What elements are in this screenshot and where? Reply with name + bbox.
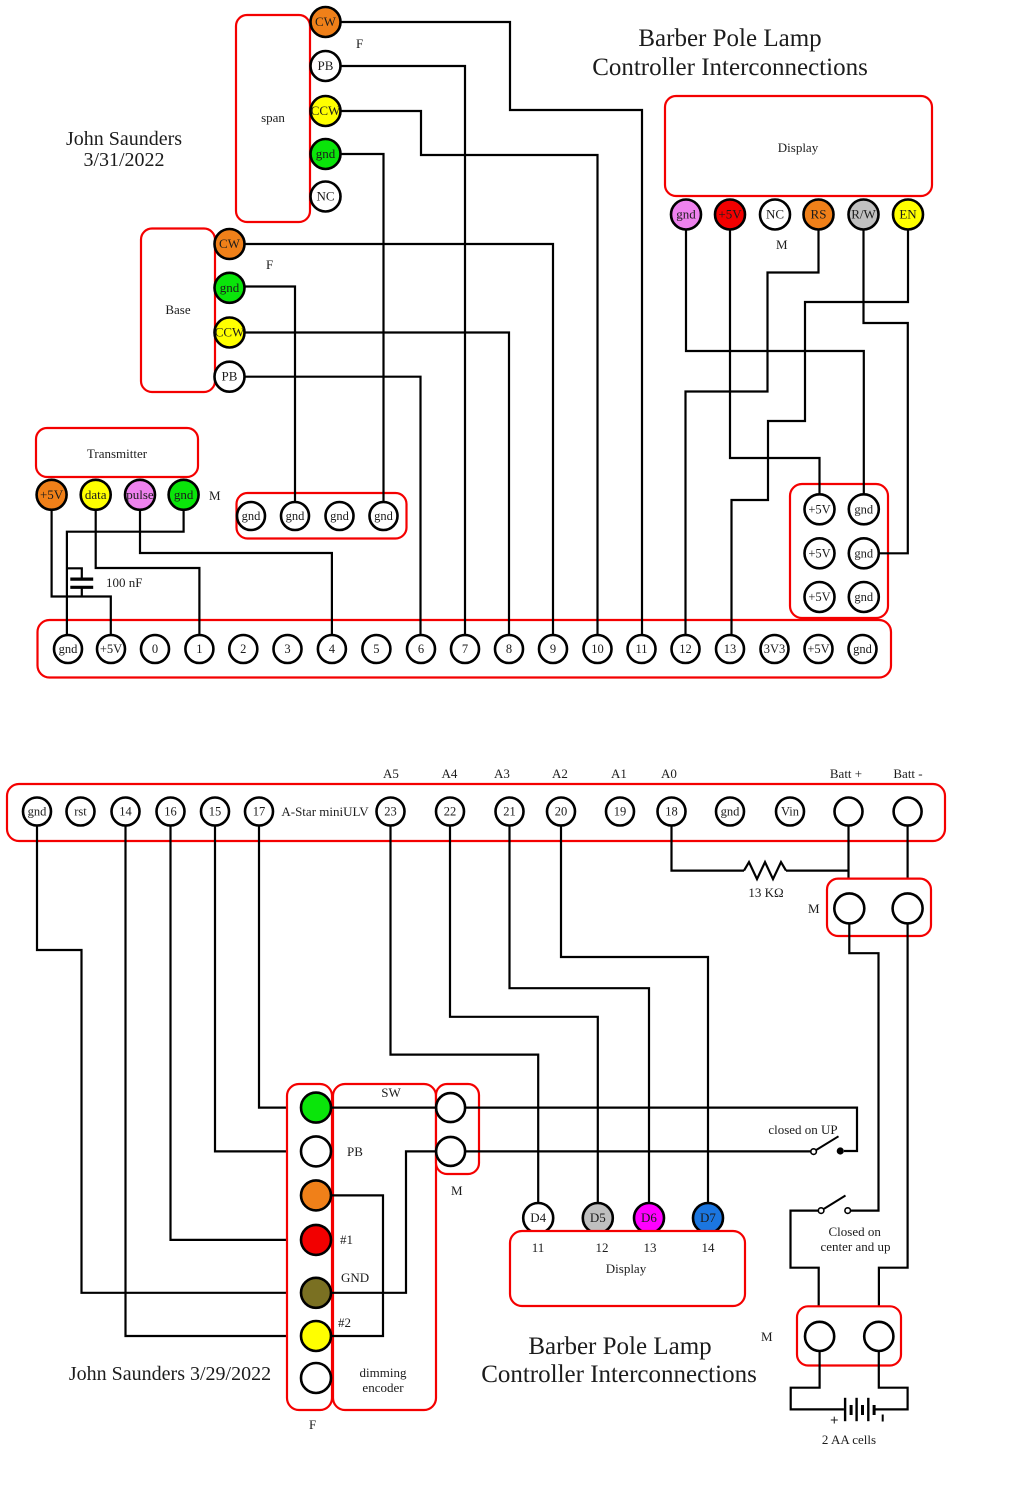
wire Base CW to bus pin 9 <box>245 244 554 635</box>
svg-text:15: 15 <box>209 805 222 819</box>
svg-text:closed on UP: closed on UP <box>768 1122 837 1137</box>
svg-text:EN: EN <box>899 207 917 222</box>
wire bus2 17 to encoder SW pin <box>259 827 301 1108</box>
encoder F strip box <box>287 1084 332 1410</box>
svg-text:1: 1 <box>196 642 202 656</box>
svg-text:3: 3 <box>284 642 290 656</box>
span pin gnd <box>311 139 341 169</box>
svg-text:Batt -: Batt - <box>893 766 922 781</box>
wire display RS to bus pin 12 <box>686 230 819 636</box>
svg-text:13 KΩ: 13 KΩ <box>748 885 783 900</box>
lower M pin left <box>805 1322 834 1351</box>
wire Batt+ pin to M connector <box>847 827 849 894</box>
wire M bottom pin to switch1 left contact <box>465 1150 811 1152</box>
svg-text:+5V: +5V <box>808 546 830 560</box>
svg-text:Display: Display <box>778 140 819 155</box>
pin D6 <box>634 1203 664 1233</box>
svg-text:2: 2 <box>240 642 246 656</box>
transmitter pin data <box>81 480 111 510</box>
svg-text:A3: A3 <box>494 766 510 781</box>
wire bus2 21 to D6 <box>510 827 650 1204</box>
svg-text:gnd: gnd <box>316 146 336 161</box>
span pin CCW <box>311 96 341 126</box>
wire transmitter data to bus pin 1 <box>96 510 200 635</box>
svg-text:#1: #1 <box>340 1232 353 1247</box>
svg-text:gnd: gnd <box>374 509 394 523</box>
switch1 closed on UP <box>811 1149 817 1155</box>
svg-text:R/W: R/W <box>851 207 876 222</box>
svg-text:dimming: dimming <box>360 1365 407 1380</box>
svg-text:gnd: gnd <box>854 590 874 604</box>
bus1 pin 9 at x 553 <box>539 635 567 663</box>
svg-text:gnd: gnd <box>854 546 874 560</box>
svg-text:CW: CW <box>219 236 241 251</box>
encoder pin white bottom <box>301 1363 331 1393</box>
wire M right down to lower M right <box>879 923 908 1321</box>
svg-text:3/31/2022: 3/31/2022 <box>83 149 164 171</box>
svg-text:F: F <box>266 257 273 272</box>
wire Base CCW to bus pin 8 <box>245 333 510 636</box>
display pin R/W <box>849 200 879 230</box>
bus2 pin rst at x 80.5 <box>67 798 95 826</box>
encoder pin #1 red <box>301 1225 331 1255</box>
wire resistor to Batt+ line <box>786 869 849 871</box>
group pin gnd row1 <box>849 494 879 524</box>
svg-text:9: 9 <box>550 642 556 656</box>
bus2 pin 15 at x 215 <box>201 798 229 826</box>
dimming encoder box <box>333 1084 436 1410</box>
svg-text:NC: NC <box>766 207 784 222</box>
connector span box <box>236 15 310 222</box>
svg-text:M: M <box>776 237 788 252</box>
wire bus2 14 to encoder #2 pin <box>126 827 302 1337</box>
wire bus2 15 to encoder PB pin <box>215 827 301 1152</box>
encoder pin GND olive <box>301 1278 331 1308</box>
battery B1 2 AA cells <box>844 1398 846 1421</box>
display pin NC <box>760 200 790 230</box>
gnd group pin 1 <box>237 502 265 530</box>
svg-text:span: span <box>261 110 285 125</box>
wire encoder orange pin to yellow pin <box>331 1195 383 1336</box>
encoder pin #2 yellow <box>301 1321 331 1351</box>
group pin +5V row3 <box>805 582 835 612</box>
Base pin CCW <box>215 318 245 348</box>
svg-text:D6: D6 <box>641 1210 657 1225</box>
svg-text:A2: A2 <box>552 766 568 781</box>
svg-text:John Saunders: John Saunders <box>66 128 182 150</box>
svg-text:23: 23 <box>384 805 397 819</box>
bus1 pin +5V at x 818.5 <box>805 635 833 663</box>
resistor R1 13 KOhm <box>744 862 786 879</box>
svg-text:gnd: gnd <box>721 805 741 819</box>
span pin NC <box>311 182 341 212</box>
group pin gnd row3 <box>849 582 879 612</box>
lower M pin right <box>864 1322 893 1351</box>
bus1 pin 5 at x 376.4 <box>362 635 390 663</box>
svg-text:PB: PB <box>347 1144 363 1159</box>
svg-text:A5: A5 <box>383 766 399 781</box>
switch2 closed on center and up <box>818 1208 824 1214</box>
bus2 pin 22 at x 450 <box>436 798 464 826</box>
svg-text:gnd: gnd <box>330 509 350 523</box>
bus1 pin 10 at x 597.5 <box>584 635 612 663</box>
svg-text:CW: CW <box>315 14 337 29</box>
svg-text:12: 12 <box>596 1240 609 1255</box>
bus1 pin +5V at x 111 <box>97 635 125 663</box>
wire bus2 16 to encoder #1 pin <box>171 827 302 1240</box>
svg-text:gnd: gnd <box>28 805 48 819</box>
svg-text:GND: GND <box>341 1270 369 1285</box>
svg-text:#2: #2 <box>338 1315 351 1330</box>
wire lower M right to battery <box>876 1351 908 1409</box>
wire M left to switch2 right contact <box>849 923 878 1210</box>
encoder pin SW green <box>301 1093 331 1123</box>
wire encoder GND pin to M bottom pin <box>331 1151 436 1292</box>
wire display gnd to group top gnd <box>686 230 864 495</box>
svg-text:12: 12 <box>679 642 692 656</box>
wire M top pin to switch1 <box>465 1108 857 1151</box>
svg-text:Display: Display <box>606 1261 647 1276</box>
bus2 pin 18 at x 671.5 <box>658 798 686 826</box>
svg-text:gnd: gnd <box>220 280 240 295</box>
battery M pin left <box>834 893 864 923</box>
bus2 pin Batt at x 907.6 <box>894 798 922 826</box>
svg-text:3V3: 3V3 <box>764 642 786 656</box>
A-Star bus box <box>7 784 945 841</box>
svg-text:gnd: gnd <box>174 487 194 502</box>
bus2 pin 20 at x 561 <box>547 798 575 826</box>
svg-text:A0: A0 <box>661 766 677 781</box>
Transmitter box <box>36 428 198 477</box>
svg-text:pulse: pulse <box>126 487 154 502</box>
gnd group pin 3 <box>326 502 354 530</box>
group pin +5V row1 <box>805 494 835 524</box>
Base pin gnd <box>215 273 245 303</box>
bus2 pin Vin at x 790 <box>776 798 804 826</box>
svg-text:NC: NC <box>316 189 334 204</box>
wire bus2 20 to D7 <box>561 827 708 1204</box>
wire Batt- pin to M connector <box>906 827 908 894</box>
bus2 pin 21 at x 509.5 <box>496 798 524 826</box>
main bus box <box>38 620 892 678</box>
svg-text:11: 11 <box>635 642 647 656</box>
svg-text:5: 5 <box>373 642 379 656</box>
svg-text:21: 21 <box>503 805 516 819</box>
svg-text:A1: A1 <box>611 766 627 781</box>
svg-text:14: 14 <box>119 805 132 819</box>
Display box top <box>665 96 932 196</box>
capacitor C1 100 nF <box>67 568 82 579</box>
svg-text:11: 11 <box>532 1240 545 1255</box>
display pin RS <box>804 200 834 230</box>
span pin CW <box>311 7 341 37</box>
bus1 pin 0 at x 155 <box>141 635 169 663</box>
svg-text:Barber Pole Lamp: Barber Pole Lamp <box>528 1333 711 1360</box>
encoder pin PB white <box>301 1136 331 1166</box>
display pin +5V <box>715 200 745 230</box>
svg-text:encoder: encoder <box>362 1380 404 1395</box>
display pin EN <box>893 200 923 230</box>
wire transmitter gnd to bus gnd <box>67 510 184 635</box>
bus1 pin 7 at x 465 <box>451 635 479 663</box>
svg-text:0: 0 <box>152 642 158 656</box>
bus1 pin 11 at x 641.5 <box>628 635 656 663</box>
svg-text:M: M <box>451 1183 463 1198</box>
wire span CW to bus pin 11 <box>340 22 642 635</box>
svg-text:Transmitter: Transmitter <box>87 446 148 461</box>
svg-text:19: 19 <box>614 805 627 819</box>
svg-text:gnd: gnd <box>854 502 874 516</box>
svg-text:18: 18 <box>665 805 678 819</box>
wire switch2 left contact to lower M left <box>791 1211 819 1322</box>
svg-text:D7: D7 <box>700 1210 716 1225</box>
bus1 pin 13 at x 730 <box>716 635 744 663</box>
transmitter pin gnd <box>169 480 199 510</box>
svg-text:20: 20 <box>555 805 568 819</box>
svg-text:M: M <box>808 901 820 916</box>
wire Base gnd to gnd group pin 2 <box>243 287 295 503</box>
svg-text:center and up: center and up <box>820 1239 890 1254</box>
bus1 pin 3V3 at x 774.5 <box>761 635 789 663</box>
gnd group box <box>237 493 407 539</box>
lower M connector box <box>797 1306 901 1365</box>
pin D5 <box>583 1203 613 1233</box>
bus2 pin 19 at x 620 <box>606 798 634 826</box>
Base pin PB <box>215 362 245 392</box>
wire bus2 gnd to encoder GND pin <box>37 827 301 1293</box>
display box bottom <box>510 1231 745 1306</box>
wire bus2 23 to D4 <box>391 827 539 1204</box>
wire span gnd to gnd group pin 4 <box>341 154 384 502</box>
svg-text:F: F <box>309 1417 316 1432</box>
bus2 pin 14 at x 125.5 <box>112 798 140 826</box>
svg-text:17: 17 <box>253 805 266 819</box>
svg-text:gnd: gnd <box>286 509 306 523</box>
encoder M pin top <box>436 1093 465 1122</box>
wire display +5V to group top +5V <box>730 230 820 495</box>
svg-text:gnd: gnd <box>676 207 696 222</box>
bus1 pin 3 at x 287.5 <box>274 635 302 663</box>
svg-text:PB: PB <box>222 369 238 384</box>
svg-text:CCW: CCW <box>311 103 341 118</box>
gnd group pin 2 <box>281 502 309 530</box>
svg-text:+5V: +5V <box>807 642 829 656</box>
svg-text:+5V: +5V <box>808 590 830 604</box>
svg-text:Barber Pole Lamp: Barber Pole Lamp <box>638 25 821 52</box>
svg-text:data: data <box>85 487 107 502</box>
span pin PB <box>311 51 341 81</box>
svg-text:F: F <box>356 36 363 51</box>
connector Base box <box>141 229 215 393</box>
svg-text:A4: A4 <box>442 766 458 781</box>
svg-text:+5V: +5V <box>718 207 742 222</box>
bus1 pin 6 at x 421 <box>407 635 435 663</box>
wire bus2 22 to D5 <box>450 827 598 1204</box>
wire display R/W to group mid gnd <box>864 230 908 554</box>
group pin gnd row2 <box>849 538 879 568</box>
svg-text:M: M <box>209 488 221 503</box>
bus2 pin Batt at x 848.5 <box>835 798 863 826</box>
bus1 pin gnd at x 68 <box>54 635 82 663</box>
bus2 pin 17 at x 259 <box>245 798 273 826</box>
svg-text:14: 14 <box>702 1240 716 1255</box>
svg-text:2 AA cells: 2 AA cells <box>822 1432 876 1447</box>
svg-text:10: 10 <box>591 642 604 656</box>
svg-text:SW: SW <box>381 1085 401 1100</box>
svg-text:+5V: +5V <box>808 502 830 516</box>
bus2 pin gnd at x 730 <box>716 798 744 826</box>
transmitter pin +5V <box>37 480 67 510</box>
wire span CCW to bus pin 10 <box>340 111 598 635</box>
pin D7 <box>693 1203 723 1233</box>
bus1 pin 8 at x 509 <box>495 635 523 663</box>
bus2 pin 23 at x 390.5 <box>377 798 405 826</box>
svg-text:6: 6 <box>418 642 424 656</box>
encoder M box <box>436 1084 479 1174</box>
svg-text:gnd: gnd <box>853 642 873 656</box>
Base pin CW <box>215 229 245 259</box>
svg-text:D5: D5 <box>590 1210 606 1225</box>
svg-text:A-Star miniULV: A-Star miniULV <box>281 804 369 819</box>
+5V gnd group box <box>790 484 888 618</box>
svg-text:John Saunders 3/29/2022: John Saunders 3/29/2022 <box>69 1363 271 1385</box>
bus1 pin gnd at x 862.5 <box>849 635 877 663</box>
svg-text:Controller Interconnections: Controller Interconnections <box>481 1361 757 1388</box>
svg-text:CCW: CCW <box>215 325 245 340</box>
svg-text:+5V: +5V <box>40 487 64 502</box>
svg-text:RS: RS <box>811 207 827 222</box>
svg-text:M: M <box>761 1329 773 1344</box>
battery M connector box <box>827 879 931 936</box>
svg-text:16: 16 <box>164 805 177 819</box>
svg-text:22: 22 <box>444 805 457 819</box>
svg-text:4: 4 <box>329 642 336 656</box>
gnd group pin 4 <box>370 502 398 530</box>
svg-text:Base: Base <box>165 302 191 317</box>
bus2 pin 16 at x 170.5 <box>157 798 185 826</box>
group pin +5V row2 <box>805 538 835 568</box>
svg-text:+5V: +5V <box>100 642 122 656</box>
svg-text:gnd: gnd <box>59 642 79 656</box>
svg-text:100 nF: 100 nF <box>106 575 142 590</box>
wire span PB to bus pin 7 <box>340 66 465 635</box>
svg-text:+: + <box>830 1413 839 1429</box>
bus1 pin 2 at x 243.3 <box>229 635 257 663</box>
svg-text:PB: PB <box>318 58 334 73</box>
svg-text:Vin: Vin <box>781 805 800 819</box>
wire Base PB to bus pin 6 <box>245 377 421 635</box>
battery minus tick <box>882 1415 884 1422</box>
bus1 pin 12 at x 685.5 <box>672 635 700 663</box>
transmitter pin pulse <box>125 480 155 510</box>
svg-text:D4: D4 <box>530 1210 546 1225</box>
svg-text:13: 13 <box>724 642 737 656</box>
svg-text:7: 7 <box>462 642 468 656</box>
wire bus2 18 to resistor <box>672 827 745 871</box>
display pin gnd <box>671 200 701 230</box>
pin D4 <box>523 1203 553 1233</box>
bus1 pin 4 at x 331.9 <box>318 635 346 663</box>
wire encoder SW pin to M top pin <box>331 1106 436 1108</box>
svg-text:rst: rst <box>74 805 87 819</box>
battery M pin right <box>893 893 923 923</box>
bus2 pin gnd at x 37 <box>23 798 51 826</box>
wire transmitter +5V to bus +5V <box>52 510 111 635</box>
svg-text:Controller Interconnections: Controller Interconnections <box>592 54 868 81</box>
svg-text:gnd: gnd <box>242 509 262 523</box>
encoder pin orange <box>301 1180 331 1210</box>
wire transmitter pulse to bus pin 4 <box>140 510 332 635</box>
bus1 pin 1 at x 199.4 <box>185 635 213 663</box>
wire display EN to bus pin 13 <box>732 230 909 636</box>
svg-text:13: 13 <box>644 1240 657 1255</box>
svg-text:Batt +: Batt + <box>830 766 862 781</box>
wire lower M left to battery <box>791 1351 844 1409</box>
svg-text:Closed on: Closed on <box>829 1224 882 1239</box>
encoder M pin bottom <box>436 1137 465 1166</box>
svg-text:8: 8 <box>506 642 512 656</box>
